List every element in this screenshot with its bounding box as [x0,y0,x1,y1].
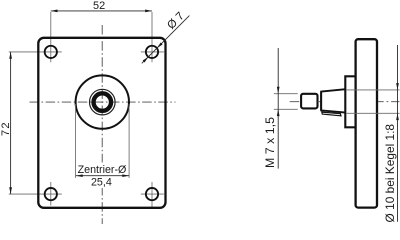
dimension 25,4 line [76,175,129,177]
collar circle [90,89,116,115]
centerline cross bottom-right hole (vertical) [151,182,153,209]
svg-text:Zentrier-Ø: Zentrier-Ø [78,164,127,176]
extension line through bottom-left hole (horizontal, from 72 dim) [9,193,62,195]
hole bottom-left [45,188,57,200]
arrow 25,4 right [122,174,129,177]
arrow 25,4 left [76,174,83,177]
cone flat tab [322,112,341,116]
svg-text:25,4: 25,4 [91,177,112,189]
hub collar [345,76,355,127]
dimension 72 line [10,52,12,194]
arrow 52 right [145,10,152,13]
cone small-end edge [320,92,322,111]
centerline cross bottom-left hole (vertical) [50,182,52,206]
horizontal centerline of plate [30,101,176,103]
svg-text:52: 52 [93,0,105,12]
dimension M7 line [277,48,279,169]
arrow 72 bottom [9,187,12,194]
shaft bore ring (thick) [94,93,112,111]
vertical centerline of plate [101,25,103,224]
arrow M7 bottom (points up) [277,109,280,116]
hole top-right [146,46,158,58]
arrow O7 lower (points up-right to hole edge) [143,57,149,63]
arrow 72 top [9,52,12,59]
svg-text:72: 72 [0,121,12,136]
centerline mask behind Zentrier labels [99,163,104,189]
arrow O10 top (points down) [396,83,399,90]
extension line through top-right hole (vertical, from 52 dim) [151,12,153,62]
threaded stud M7 [301,94,317,109]
svg-text:Ø 10 bei Kegel 1:8: Ø 10 bei Kegel 1:8 [383,124,397,223]
mounting plate outline [38,38,165,208]
centerline cross bottom-right hole (horizontal) [141,193,164,195]
centerline cross top-right hole (horizontal) [141,51,164,53]
extension line through top-left hole (horizontal, from 72 dim) [9,51,62,53]
arrow M7 top (points down) [277,87,280,94]
extension line M7 bottom [274,108,298,110]
extension line Zentrier left [75,104,77,178]
arrow 52 left [51,10,58,13]
svg-text:M 7 x 1,5: M 7 x 1,5 [263,117,277,168]
arrow O10 bottom (points up) [396,113,399,120]
extension line M7 top [274,93,298,95]
shaft centerline [290,101,400,103]
hole bottom-right [146,188,158,200]
extension line Zentrier right [128,104,130,178]
flange plate (side) [356,39,377,207]
leader line O7 [142,16,190,64]
extension line O10 top [347,89,400,91]
extension line O10 bottom [347,112,400,114]
extension line through top-left hole (vertical, from 52 dim) [50,12,52,62]
centering boss circle (Zentrier-O) [76,75,129,128]
arrow O7 upper (points down-left to hole edge) [157,43,163,49]
taper cone body [321,89,346,112]
dimension 52 line [51,10,152,12]
dimension O10 line [397,45,399,222]
hole top-left [45,46,57,58]
